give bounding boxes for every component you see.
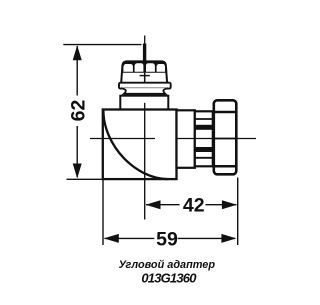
vertical center line (valve axis) bbox=[144, 36, 146, 220]
union nut bbox=[214, 100, 237, 174]
dimension 59: label bbox=[156, 228, 178, 250]
dimension 59: left extension line bbox=[102, 180, 104, 246]
caption line 2: code number bbox=[141, 270, 197, 285]
cap knurl band (scalloped ribs) bbox=[122, 61, 166, 72]
svg-text:Угловой адаптер: Угловой адаптер bbox=[119, 259, 216, 271]
svg-text:59: 59 bbox=[156, 228, 178, 250]
dimension 62: top extension line bbox=[63, 44, 141, 46]
valve boss bbox=[120, 96, 168, 110]
valve body bbox=[103, 110, 177, 180]
dimension 62: dimension line with arrows bbox=[73, 45, 82, 178]
neck between body and union bbox=[177, 110, 195, 168]
cap center mark bbox=[140, 73, 150, 83]
cap (knurled knob) outline bbox=[121, 61, 167, 82]
cap flange bbox=[119, 83, 171, 89]
svg-text:42: 42 bbox=[183, 195, 205, 217]
dimension 59: dimension line with arrows bbox=[104, 234, 237, 243]
body elbow arc bbox=[103, 111, 168, 180]
caption line 1: product name bbox=[119, 259, 216, 271]
dimension 42: right extension line bbox=[237, 178, 239, 246]
dimension 62: bottom extension line bbox=[67, 178, 104, 180]
valve stem bbox=[143, 44, 146, 63]
dimension 42: label bbox=[183, 195, 205, 217]
svg-text:62: 62 bbox=[67, 100, 89, 122]
cap neck groove bbox=[121, 88, 168, 94]
dimension 62: label bbox=[67, 100, 89, 122]
horizontal center line (pipe axis) bbox=[90, 138, 256, 140]
threaded tailpiece stub bbox=[195, 111, 213, 166]
svg-text:013G1360: 013G1360 bbox=[141, 270, 197, 285]
dimension 42: dimension line with arrows bbox=[146, 200, 237, 209]
